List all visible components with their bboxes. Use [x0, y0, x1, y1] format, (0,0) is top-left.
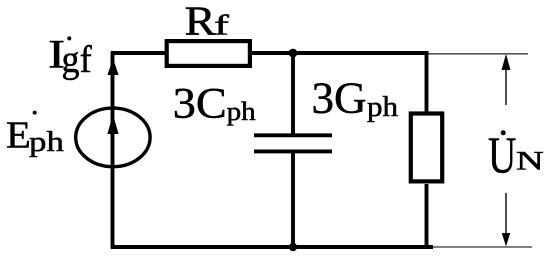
svg-text:R: R	[185, 0, 217, 44]
svg-text:N: N	[516, 146, 544, 176]
svg-text:3G: 3G	[312, 73, 367, 123]
svg-text:gf: gf	[62, 39, 93, 81]
svg-text:ph: ph	[227, 97, 256, 126]
svg-text:f: f	[214, 10, 230, 41]
svg-text:ph: ph	[29, 125, 64, 157]
svg-text:E: E	[6, 114, 31, 156]
svg-text:U: U	[488, 126, 516, 183]
svg-text:ph: ph	[367, 91, 398, 123]
svg-text:3C: 3C	[173, 79, 227, 128]
